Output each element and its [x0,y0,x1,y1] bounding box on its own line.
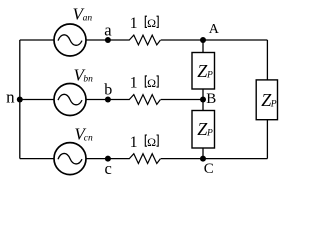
source V_bn circle [54,84,86,116]
wire row1 left: bus to source Van [20,39,54,41]
label V_bn [74,65,94,84]
svg-text:Ω: Ω [147,16,156,30]
node a [105,37,111,43]
label 1[Ohm] row1 [130,15,159,32]
svg-text:B: B [206,91,216,107]
svg-text:A: A [209,22,220,37]
node n [17,97,23,103]
svg-text:P: P [206,129,213,139]
wire node A to Zp box1 [202,40,204,53]
wire Zp box1 to node B [202,89,204,100]
svg-text:P: P [206,70,213,80]
source V_cn circle [54,143,86,175]
wire right branch bottom vertical [266,120,268,159]
label 1[Ohm] row2 [130,75,159,92]
svg-text:an: an [83,14,93,24]
svg-text:1: 1 [130,75,138,92]
resistor R row3 1[Ohm] [129,154,160,164]
svg-text:b: b [104,82,112,99]
resistor R row2 1[Ohm] [129,95,160,105]
node b [105,97,111,103]
node C [200,156,206,162]
svg-text:P: P [270,100,277,110]
wire row2: resistor to node B [161,99,203,101]
svg-text:a: a [104,21,112,40]
label Zp box3 [261,90,277,110]
label Zp box2 [197,119,213,139]
svg-text:cn: cn [84,133,93,143]
wire row3: source to resistor [87,158,130,160]
impedance Zp box1 (A-B) [192,53,215,90]
svg-text:Ω: Ω [147,76,156,90]
wire row1: resistor to node A and to right corner [161,39,268,41]
wire node B to Zp box2 [202,100,204,111]
label 1[Ohm] row3 [130,134,159,151]
svg-text:bn: bn [83,74,93,84]
node A [200,37,206,43]
label V_cn [74,124,93,143]
svg-text:Ω: Ω [147,135,156,149]
svg-text:c: c [105,159,112,178]
node B [200,97,206,103]
wire row2: source to resistor [87,99,130,101]
wire right branch top vertical [266,40,268,80]
svg-text:C: C [204,161,214,177]
wire Zp box2 to node C [202,148,204,159]
wire row1: source to resistor [87,39,130,41]
label Zp box1 [197,61,213,81]
svg-text:1: 1 [130,15,138,32]
resistor R row1 1[Ohm] [129,35,160,45]
wire row3: resistor to node C and to right corner [161,158,268,160]
wire row2 left: bus to source Vbn [20,99,54,101]
wire left bus vertical n [19,40,21,159]
svg-text:1: 1 [130,134,138,151]
source V_an circle [54,24,86,56]
node c [105,156,111,162]
impedance Zp box3 (right, A-C) [256,80,277,120]
svg-text:n: n [6,87,15,106]
impedance Zp box2 (B-C) [192,111,215,149]
wire row3 left: bus to source Vcn [20,158,54,160]
label V_an [73,5,93,24]
